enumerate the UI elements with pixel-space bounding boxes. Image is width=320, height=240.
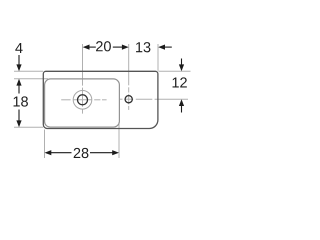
label 28 [74,148,81,158]
extension line right (tap centerline extended) [136,98,153,100]
extension line top-right (rim top edge extended) [159,70,191,72]
arrow 28 right [112,150,119,155]
dimension 28 line left segment [51,152,72,154]
dimension 18 line lower segment [18,110,20,121]
drain outer circle [73,91,92,110]
extension line vertical at tap center [128,44,130,85]
dimension 4 vertical line [18,55,20,65]
extension line left (bowl top edge) [14,78,48,80]
extension line vertical bowl left [44,130,46,159]
arrow 12 up [179,99,184,106]
dimension 20 line right segment [113,46,122,48]
arrow left of 20 [83,45,90,50]
extension line top-left (outer rim top edge) [14,70,43,72]
dimension 20 line left segment [89,46,96,48]
arrow 18 down [16,120,21,127]
label 20 [96,41,103,51]
extension line bottom-left (outer rim bottom) [14,126,43,128]
arrow 18 up [16,79,21,86]
tail 13 [165,46,172,48]
tap horizontal centerline left dash [120,98,123,100]
label 12 [173,78,179,88]
arrow 13 outside right [158,45,165,50]
label 4 [15,43,22,53]
inner bowl outline [45,79,120,127]
drain horizontal centerline [61,99,70,101]
tap vertical centerline [128,87,130,92]
label 13 [136,42,142,52]
dimension 28 line right segment [90,152,113,154]
dimension 18 line upper segment [18,85,20,93]
dimension 12 top tail [181,59,183,65]
extension line vertical at rim right edge [157,44,159,71]
extension line vertical at drain center [82,44,84,86]
arrow 4 down [16,64,21,71]
arrow 12 down [179,64,184,71]
drain inner circle [78,95,88,105]
tap hole circle [125,96,132,103]
arrow 28 left [45,150,52,155]
label 18 [14,97,20,107]
outer ceramic rim outline [43,71,158,128]
drain vertical centerline [82,88,84,107]
extension line vertical bowl right [118,122,120,158]
dimension 12 bottom tail [181,106,183,113]
arrow right of 20 [122,45,129,50]
